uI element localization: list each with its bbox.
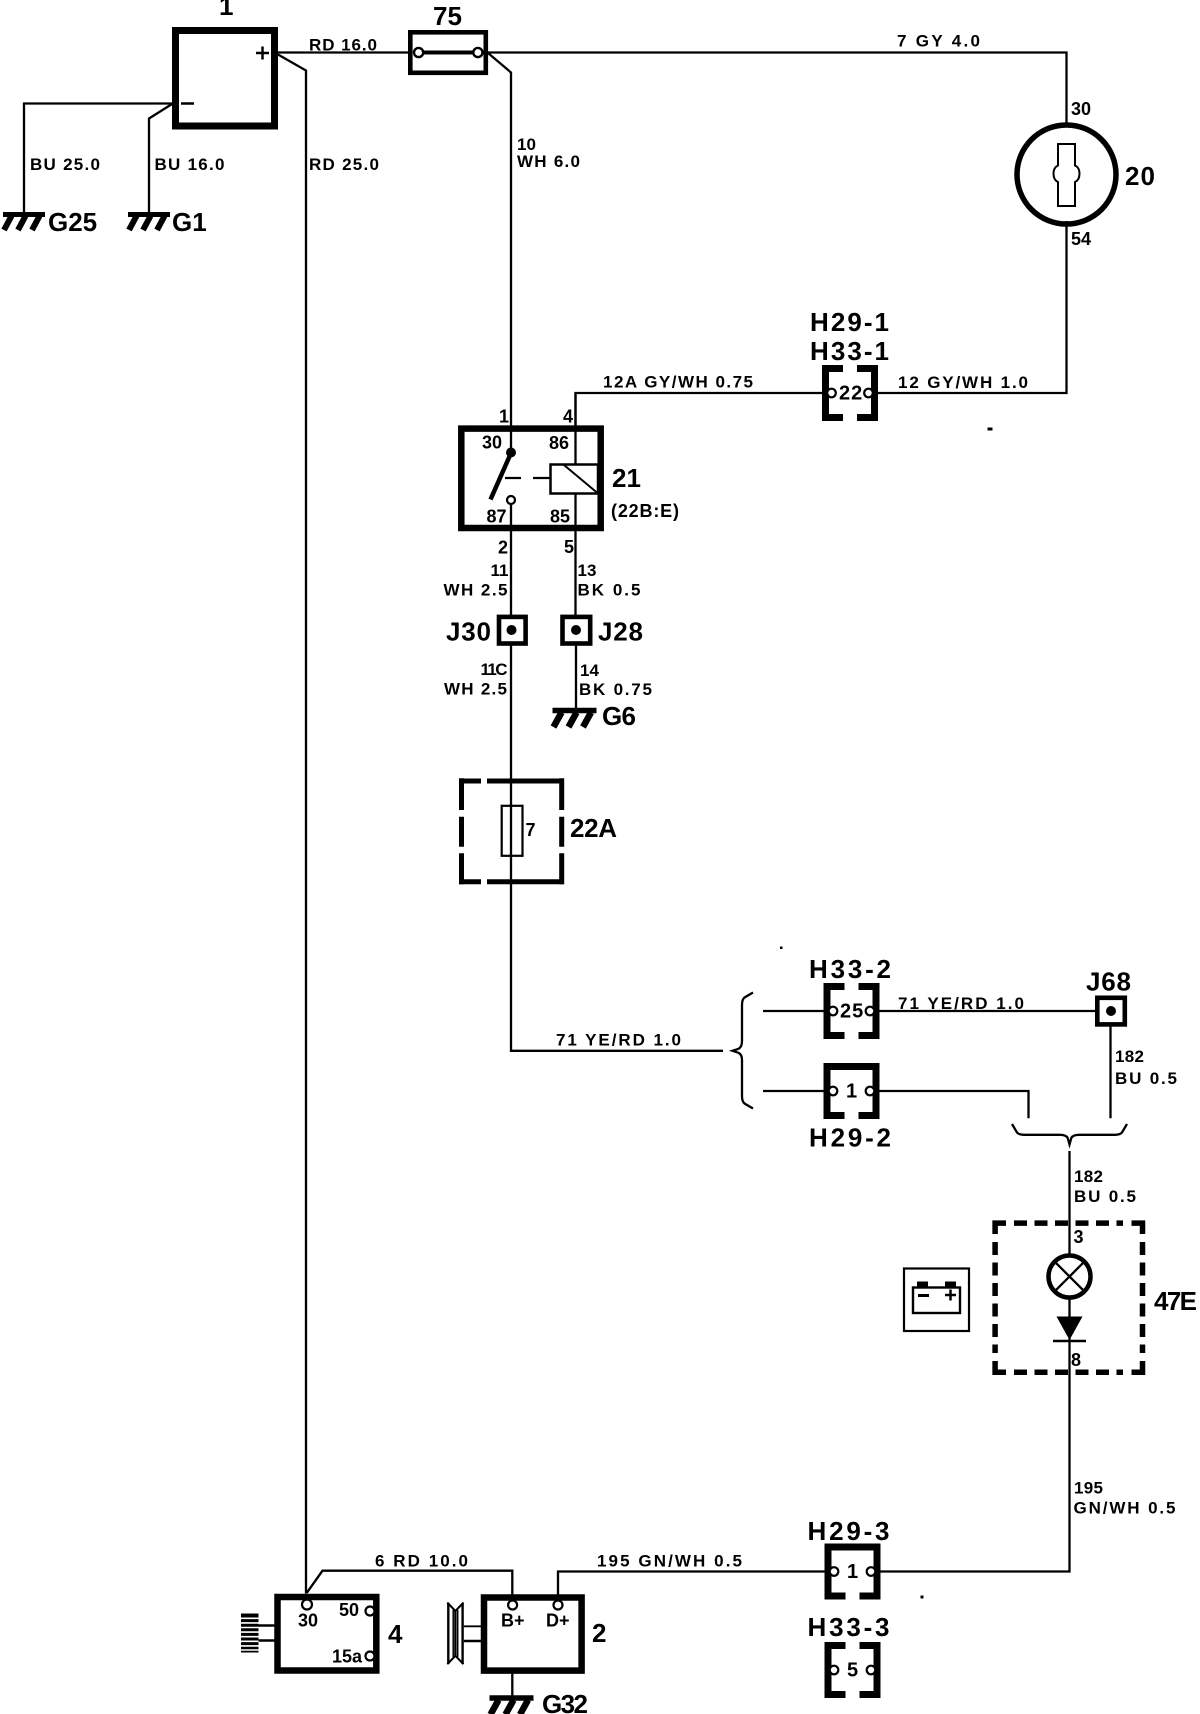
svg-text:8: 8 (1071, 1350, 1081, 1370)
wire 10 WH 6.0 (fuse 75 to relay pin 1) (488, 53, 580, 426)
battery indicator icon (904, 1269, 969, 1332)
wire 71 YE/RD 1.0 (H33-2 to junction J68) (880, 994, 1096, 1013)
svg-text:71 YE/RD 1.0: 71 YE/RD 1.0 (898, 994, 1024, 1013)
svg-text:J30: J30 (446, 617, 491, 647)
svg-text:7 GY 4.0: 7 GY 4.0 (897, 32, 980, 51)
svg-text:H33-2: H33-2 (809, 954, 891, 984)
fuse 75 (410, 1, 486, 73)
wire 71 YE/RD 1.0 (fuse 22A to split brace) (511, 884, 723, 1051)
svg-text:G25: G25 (48, 207, 97, 237)
wire 13 BK 0.5 (relay pin 5 to junction J28) (576, 528, 641, 617)
svg-text:12 GY/WH 1.0: 12 GY/WH 1.0 (898, 373, 1028, 392)
fuse 22A (459, 778, 617, 884)
svg-text:H29-1: H29-1 (810, 307, 889, 337)
svg-text:2: 2 (592, 1618, 606, 1648)
svg-text:2: 2 (498, 538, 508, 558)
svg-text:75: 75 (433, 1, 462, 31)
ground G32 (490, 1689, 589, 1714)
svg-text:30: 30 (1071, 99, 1091, 119)
wire 182 BU 0.5 (J68 down to merge brace) (1111, 1024, 1178, 1118)
junction J68 (1086, 967, 1131, 1025)
lamp 20 (1017, 125, 1155, 224)
svg-text:H33-1: H33-1 (810, 336, 889, 366)
svg-text:22A: 22A (570, 813, 617, 843)
connector H29-3 pin 1 (808, 1516, 890, 1596)
wire 11C WH 2.5 (junction J30 through fuse 22A) (444, 644, 511, 885)
stray mark (988, 428, 993, 431)
svg-text:30: 30 (482, 433, 502, 453)
wire 182 BU 0.5 (merge brace to 47E pin 3 and on to H29-3) (881, 1151, 1176, 1572)
svg-text:182: 182 (1074, 1167, 1103, 1186)
wire branch to H29-2 (763, 1090, 824, 1092)
wire branch to H33-2 (763, 1010, 824, 1012)
svg-text:182: 182 (1115, 1047, 1144, 1066)
fuse element 7 (502, 806, 523, 856)
wire 195 GN/WH 0.5 (H29-3 to generator D+) (558, 1552, 825, 1598)
svg-text:GN/WH 0.5: GN/WH 0.5 (1074, 1499, 1176, 1518)
generator 2 (447, 1598, 606, 1671)
wire (generator 2 to ground G32) (511, 1671, 513, 1696)
stray mark (921, 1596, 924, 1599)
diode (1057, 1317, 1083, 1341)
svg-text:22: 22 (839, 383, 863, 405)
connector H33-2 pin 25 (809, 954, 891, 1036)
pin 50 (366, 1607, 375, 1616)
svg-text:15a: 15a (332, 1647, 363, 1667)
svg-text:RD 16.0: RD 16.0 (309, 36, 377, 55)
svg-text:20: 20 (1125, 161, 1155, 191)
svg-text:WH 2.5: WH 2.5 (444, 581, 508, 600)
svg-text:BU 0.5: BU 0.5 (1074, 1187, 1136, 1206)
ground G1 (128, 207, 207, 237)
svg-text:11C: 11C (481, 660, 508, 679)
wire 7 GY 4.0 (fuse 75 to lamp 20 pin 30) (488, 32, 1067, 129)
svg-text:4: 4 (563, 407, 573, 427)
wire (H29-2 to merge brace) (880, 1091, 1029, 1118)
svg-text:6 RD 10.0: 6 RD 10.0 (375, 1552, 468, 1571)
wire BU 16.0 (battery - to G1) (149, 104, 225, 212)
svg-text:86: 86 (549, 433, 569, 453)
svg-text:1: 1 (219, 0, 233, 21)
wire 14 BK 0.75 (junction J28 to ground G6) (576, 644, 652, 709)
svg-text:G6: G6 (602, 701, 636, 731)
wire 12A GY/WH 0.75 (connector H29-1 to relay pin 4) (576, 373, 823, 426)
svg-text:47E: 47E (1154, 1286, 1197, 1316)
pin 15a (366, 1652, 375, 1661)
stray mark (780, 947, 783, 950)
svg-text:G32: G32 (542, 1689, 588, 1714)
pin 30 (302, 1600, 312, 1610)
pulley (447, 1603, 449, 1664)
wire 12 GY/WH 1.0 (lamp 20 pin 54 to connector H29-1) (878, 221, 1067, 393)
svg-text:25: 25 (840, 1001, 864, 1023)
junction J30 (446, 617, 526, 647)
svg-text:H29-3: H29-3 (808, 1516, 890, 1546)
warning lamp unit 47E (995, 1223, 1197, 1372)
ignition switch 4 (241, 1597, 403, 1671)
wire RD 25.0 (battery + to ignition switch pin 30) (278, 55, 379, 1594)
svg-text:87: 87 (487, 506, 507, 526)
merge brace (1012, 1124, 1127, 1145)
svg-text:H33-3: H33-3 (808, 1612, 890, 1642)
wire BU 25.0 (battery - to G25) (24, 104, 172, 213)
wire 6 RD 10.0 (ignition switch pin 30 to generator B+) (307, 1552, 513, 1598)
relay 21 (461, 393, 679, 558)
connector H29-2 pin 1 (809, 1067, 891, 1153)
svg-text:1: 1 (846, 1081, 858, 1103)
svg-text:(22B:E): (22B:E) (611, 501, 679, 521)
svg-text:BU 0.5: BU 0.5 (1115, 1069, 1177, 1088)
wire RD 16.0 (battery + to fuse 75) (278, 36, 408, 55)
svg-text:J68: J68 (1086, 967, 1131, 997)
switch contact (510, 428, 512, 453)
junction J28 (563, 617, 644, 647)
wire 11 WH 2.5 (relay pin 2 to junction J30) (444, 504, 512, 617)
indicator lamp (1049, 1256, 1091, 1298)
svg-text:54: 54 (1071, 229, 1091, 249)
svg-text:WH 2.5: WH 2.5 (444, 680, 507, 699)
svg-text:5: 5 (847, 1660, 859, 1682)
svg-text:H29-2: H29-2 (809, 1123, 891, 1153)
svg-text:5: 5 (564, 537, 574, 557)
split brace (733, 993, 754, 1109)
svg-text:4: 4 (388, 1619, 403, 1649)
svg-text:21: 21 (612, 463, 641, 493)
svg-text:11: 11 (491, 561, 509, 580)
svg-text:1: 1 (499, 407, 509, 427)
svg-text:D+: D+ (546, 1611, 570, 1631)
svg-text:14: 14 (580, 661, 599, 680)
terminal D+ (554, 1601, 563, 1610)
svg-text:13: 13 (578, 561, 597, 580)
svg-text:85: 85 (550, 506, 570, 526)
svg-text:71 YE/RD 1.0: 71 YE/RD 1.0 (556, 1031, 681, 1050)
svg-text:B+: B+ (501, 1611, 525, 1631)
svg-text:J28: J28 (598, 617, 643, 647)
connector H29-1 / H33-1 pin 22 (810, 307, 889, 418)
relay coil (574, 393, 576, 465)
svg-text:30: 30 (298, 1611, 318, 1631)
ground G25 (3, 207, 97, 237)
svg-text:3: 3 (1074, 1227, 1084, 1247)
connector H33-3 pin 5 (808, 1612, 890, 1695)
ground G6 (553, 701, 637, 731)
svg-text:G1: G1 (172, 207, 207, 237)
svg-text:1: 1 (847, 1561, 859, 1583)
key symbol (241, 1614, 259, 1653)
svg-text:195: 195 (1074, 1479, 1103, 1498)
svg-text:7: 7 (526, 820, 536, 840)
svg-text:50: 50 (339, 1600, 359, 1620)
svg-text:BK 0.5: BK 0.5 (578, 581, 641, 600)
svg-text:12A GY/WH 0.75: 12A GY/WH 0.75 (603, 373, 753, 392)
battery 1 (176, 0, 275, 126)
terminal B+ (508, 1601, 517, 1610)
svg-text:WH 6.0: WH 6.0 (517, 152, 580, 171)
